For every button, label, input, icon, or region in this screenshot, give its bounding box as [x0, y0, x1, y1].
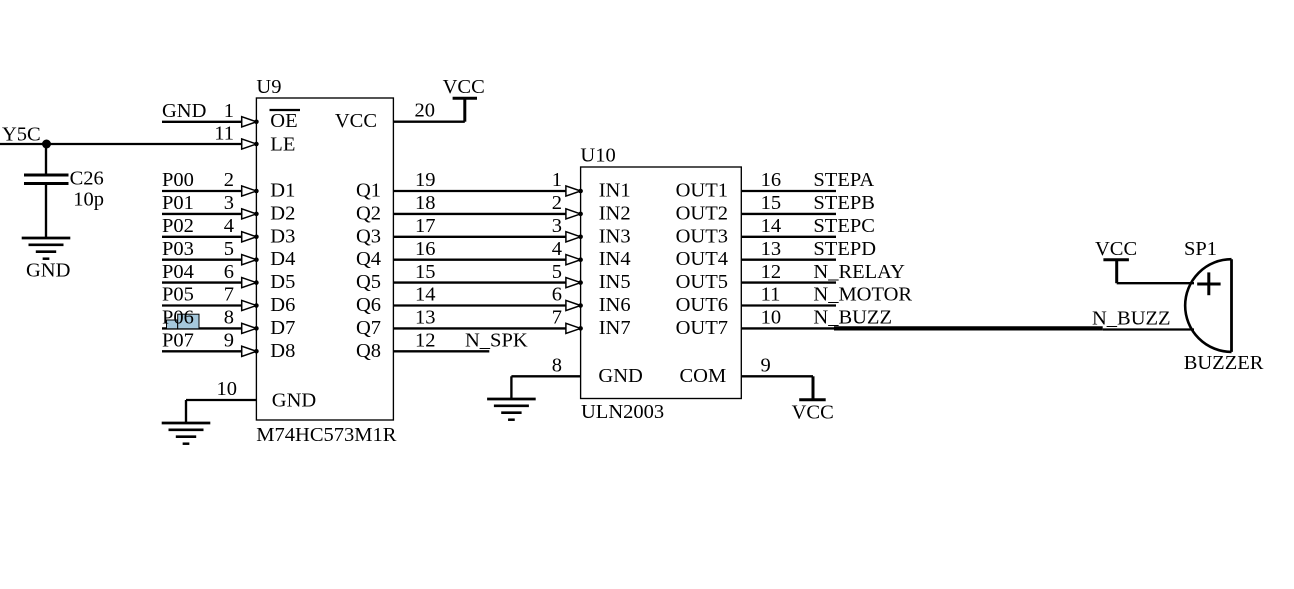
pin 2 input arrow U10 IN2: [566, 209, 583, 219]
svg-text:COM: COM: [679, 365, 726, 387]
svg-text:17: 17: [415, 215, 436, 237]
svg-text:8: 8: [224, 307, 234, 329]
pin number 3: [224, 192, 234, 214]
wire U9 Q2 (pin 18) to U10 IN2 (pin 2): [393, 213, 566, 215]
pin number 10: [217, 378, 238, 400]
pin 5 input arrow U9 D4: [242, 255, 259, 265]
pin name Q6: [356, 294, 381, 316]
label P04: [162, 261, 194, 283]
svg-text:15: 15: [415, 261, 436, 283]
svg-text:2: 2: [552, 192, 562, 214]
wire U9 Q4 (pin 16) to U10 IN4 (pin 4): [393, 259, 566, 261]
label net N_BUZZ: [813, 307, 892, 329]
label P01: [162, 192, 194, 214]
svg-text:GND: GND: [272, 390, 316, 412]
wire U10 OUT3 (pin 14) net STEPC: [741, 236, 836, 238]
svg-text:VCC: VCC: [443, 76, 485, 98]
pin 4 input arrow U9 D3: [242, 232, 259, 242]
svg-text:D8: D8: [270, 340, 295, 362]
wire C26 to ground: [45, 184, 47, 239]
IC U9 reference label: [256, 76, 281, 98]
svg-text:1: 1: [552, 169, 562, 191]
wire U9 Q3 (pin 17) to U10 IN3 (pin 3): [393, 236, 566, 238]
pin number 16: [761, 169, 782, 191]
pin name D3: [270, 225, 295, 247]
pin name D1: [270, 180, 295, 202]
pin number 11: [761, 284, 781, 306]
svg-text:Q8: Q8: [356, 340, 381, 362]
wire U10 OUT7 (pin 10) net N_BUZZ: [741, 327, 836, 329]
wire N_BUZZ thick segment: [834, 326, 1103, 330]
wire U10 OUT4 (pin 13) net STEPD: [741, 259, 836, 261]
svg-text:D5: D5: [270, 271, 295, 293]
pin name Q3: [356, 225, 381, 247]
svg-text:IN7: IN7: [599, 317, 631, 339]
svg-text:Q7: Q7: [356, 317, 381, 339]
buzzer SP1 body: [1185, 259, 1231, 352]
svg-text:7: 7: [552, 307, 562, 329]
pin name D7: [270, 317, 295, 339]
pin name Q5: [356, 271, 381, 293]
svg-text:SP1: SP1: [1184, 238, 1217, 260]
pin name OUT1: [676, 180, 728, 202]
svg-text:Q4: Q4: [356, 248, 381, 270]
label net STEPB: [813, 192, 875, 214]
wire Y5C net to U9 pin 11: [0, 143, 242, 145]
wire U9 Q7 (pin 13) to U10 IN7 (pin 7): [393, 327, 566, 329]
pin number 16: [415, 238, 436, 260]
wire P04 to U9 pin 6: [162, 281, 242, 283]
svg-text:Y5C: Y5C: [2, 124, 41, 146]
svg-text:P02: P02: [162, 215, 194, 237]
pin number 5: [224, 238, 234, 260]
label P02: [162, 215, 194, 237]
svg-text:OE: OE: [270, 110, 297, 132]
pin number 4: [224, 215, 234, 237]
pin number 14: [415, 284, 436, 306]
wire P05 to U9 pin 7: [162, 304, 242, 306]
pin name LE: [270, 134, 295, 156]
svg-text:6: 6: [552, 284, 562, 306]
pin name IN2: [599, 202, 631, 224]
svg-text:P00: P00: [162, 169, 194, 191]
pin number 2: [552, 192, 562, 214]
svg-text:STEPA: STEPA: [813, 169, 874, 191]
svg-text:IN5: IN5: [599, 271, 631, 293]
svg-text:20: 20: [415, 100, 436, 122]
label P05: [162, 284, 194, 306]
svg-text:3: 3: [224, 192, 234, 214]
pin name IN4: [599, 248, 631, 270]
pin number 15: [415, 261, 436, 283]
svg-text:D2: D2: [270, 202, 295, 224]
label net N_BUZZ (at buzzer): [1092, 308, 1171, 330]
pin 3 input arrow U10 IN3: [566, 232, 583, 242]
pin number 3: [552, 215, 562, 237]
svg-text:VCC: VCC: [335, 110, 377, 132]
wire U10 pin 8 to ground: [511, 376, 580, 399]
svg-text:D1: D1: [270, 180, 295, 202]
ground below U10 pin 8: [487, 399, 536, 420]
svg-text:U9: U9: [256, 76, 281, 98]
pin number 12: [415, 330, 436, 352]
pin number 8: [224, 307, 234, 329]
svg-text:4: 4: [552, 238, 562, 260]
pin number 12: [761, 261, 782, 283]
label GND on pin 1 wire: [162, 100, 206, 122]
svg-text:OUT4: OUT4: [676, 248, 728, 270]
svg-text:3: 3: [552, 215, 562, 237]
wire P01 to U9 pin 3: [162, 213, 242, 215]
wire GND to U9 pin 1: [162, 121, 242, 123]
ground below C26: [22, 238, 71, 259]
svg-text:Q1: Q1: [356, 180, 381, 202]
pin name D8: [270, 340, 295, 362]
svg-text:16: 16: [761, 169, 782, 191]
wire U9 pin 20 to VCC: [393, 98, 464, 121]
svg-text:13: 13: [415, 307, 436, 329]
wire P00 to U9 pin 2: [162, 190, 242, 192]
svg-text:6: 6: [224, 261, 234, 283]
pin name IN3: [599, 225, 631, 247]
pin name GND (U9): [272, 390, 316, 412]
pin 1 input arrow U9 OE: [242, 117, 259, 127]
svg-text:VCC: VCC: [1095, 238, 1137, 260]
svg-text:IN4: IN4: [599, 248, 631, 270]
label P00: [162, 169, 194, 191]
svg-text:GND: GND: [598, 365, 642, 387]
svg-text:STEPD: STEPD: [813, 238, 876, 260]
pin 5 input arrow U10 IN5: [566, 278, 583, 288]
svg-text:STEPB: STEPB: [813, 192, 875, 214]
wire U9 pin 10 to ground: [186, 400, 256, 423]
buzzer plus polarity mark: [1197, 272, 1220, 295]
pin name Q4: [356, 248, 381, 270]
svg-text:OUT3: OUT3: [676, 225, 728, 247]
label C26 value 10p: [70, 167, 104, 210]
wire N_BUZZ to buzzer: [1103, 328, 1194, 330]
svg-text:P06: P06: [162, 307, 194, 329]
pin name OUT6: [676, 294, 728, 316]
pin number 1: [552, 169, 562, 191]
pin name OUT2: [676, 202, 728, 224]
wire U9 Q5 (pin 15) to U10 IN5 (pin 5): [393, 281, 566, 283]
pin number 18: [415, 192, 436, 214]
pin name COM: [679, 365, 726, 387]
svg-text:GND: GND: [26, 260, 70, 282]
pin name D2: [270, 202, 295, 224]
pin 6 input arrow U10 IN6: [566, 300, 583, 310]
IC U10 reference label: [580, 144, 615, 166]
pin name OUT3: [676, 225, 728, 247]
highlight on P06 label: [167, 314, 200, 329]
svg-text:OUT2: OUT2: [676, 202, 728, 224]
node Y5C label: [2, 124, 41, 146]
pin number 2: [224, 169, 234, 191]
pin name IN6: [599, 294, 631, 316]
pin number 5: [552, 261, 562, 283]
pin name D4: [270, 248, 295, 270]
wire P07 to U9 pin 9: [162, 350, 242, 352]
wire U10 OUT6 (pin 11) net N_MOTOR: [741, 304, 836, 306]
svg-text:10: 10: [217, 378, 238, 400]
label P03: [162, 238, 194, 260]
svg-text:9: 9: [224, 330, 234, 352]
label net N_RELAY: [813, 261, 905, 283]
pin number 20: [415, 100, 436, 122]
pin name Q8: [356, 340, 381, 362]
svg-text:11: 11: [214, 123, 234, 145]
svg-text:N_BUZZ: N_BUZZ: [1092, 308, 1171, 330]
svg-text:IN3: IN3: [599, 225, 631, 247]
pin number 7: [224, 284, 234, 306]
pin 6 input arrow U9 D5: [242, 278, 259, 288]
svg-text:OUT6: OUT6: [676, 294, 728, 316]
label net STEPC: [813, 215, 875, 237]
pin name Q2: [356, 202, 381, 224]
pin number 6: [224, 261, 234, 283]
label GND net: [26, 260, 70, 282]
pin name GND (U10): [598, 365, 642, 387]
svg-text:OUT5: OUT5: [676, 271, 728, 293]
pin name OE with overline: [270, 110, 301, 132]
svg-text:VCC: VCC: [792, 401, 834, 423]
svg-text:13: 13: [761, 238, 782, 260]
label ULN2003 part value: [581, 401, 664, 423]
label M74HC573M1R part value: [256, 424, 396, 446]
label VCC (top): [443, 76, 485, 98]
power symbol VCC (U9 pin 20): [453, 97, 477, 100]
wire U10 OUT5 (pin 12) net N_RELAY: [741, 281, 836, 283]
pin number 1: [224, 100, 234, 122]
svg-text:2: 2: [224, 169, 234, 191]
svg-text:10: 10: [761, 307, 782, 329]
svg-text:P01: P01: [162, 192, 194, 214]
svg-text:Q6: Q6: [356, 294, 381, 316]
wire U10 OUT1 (pin 16) net STEPA: [741, 190, 836, 192]
svg-text:18: 18: [415, 192, 436, 214]
svg-text:LE: LE: [270, 134, 295, 156]
label P06: [162, 307, 194, 329]
IC U10 body ULN2003: [581, 167, 742, 399]
svg-text:D4: D4: [270, 248, 295, 270]
svg-text:IN2: IN2: [599, 202, 631, 224]
pin number 14: [761, 215, 782, 237]
pin 9 input arrow U9 D8: [242, 346, 259, 356]
pin number 11: [214, 123, 234, 145]
svg-text:12: 12: [415, 330, 436, 352]
svg-text:14: 14: [761, 215, 782, 237]
svg-text:N_BUZZ: N_BUZZ: [813, 307, 892, 329]
pin name D5: [270, 271, 295, 293]
wire Y5C to C26: [45, 144, 47, 175]
svg-text:8: 8: [552, 355, 562, 377]
wire U10 pin 9 COM to VCC: [741, 376, 813, 399]
pin number 13: [415, 307, 436, 329]
svg-text:15: 15: [761, 192, 782, 214]
pin 11 input arrow U9 LE: [242, 139, 259, 149]
pin name IN1: [599, 180, 631, 202]
svg-text:16: 16: [415, 238, 436, 260]
power symbol VCC (buzzer): [1103, 258, 1129, 261]
pin name OUT4: [676, 248, 728, 270]
svg-text:N_MOTOR: N_MOTOR: [813, 284, 912, 306]
label SP1: [1184, 238, 1217, 260]
svg-text:GND: GND: [162, 100, 206, 122]
svg-text:7: 7: [224, 284, 234, 306]
pin number 19: [415, 169, 436, 191]
pin 3 input arrow U9 D2: [242, 209, 259, 219]
pin 7 input arrow U9 D6: [242, 300, 259, 310]
svg-text:9: 9: [761, 355, 771, 377]
svg-text:OUT1: OUT1: [676, 180, 728, 202]
svg-text:Q5: Q5: [356, 271, 381, 293]
svg-text:11: 11: [761, 284, 781, 306]
pin number 4: [552, 238, 562, 260]
wire P03 to U9 pin 5: [162, 259, 242, 261]
label BUZZER: [1184, 352, 1264, 374]
svg-text:D6: D6: [270, 294, 295, 316]
svg-text:14: 14: [415, 284, 436, 306]
svg-text:5: 5: [224, 238, 234, 260]
wire U9 Q6 (pin 14) to U10 IN6 (pin 6): [393, 304, 566, 306]
svg-text:IN1: IN1: [599, 180, 631, 202]
pin name OUT7: [676, 317, 728, 339]
svg-text:Q2: Q2: [356, 202, 381, 224]
pin 2 input arrow U9 D1: [242, 186, 259, 196]
pin number 9: [761, 355, 771, 377]
label net STEPA: [813, 169, 874, 191]
wire U9 Q8 (pin 12) N_SPK stub: [393, 350, 489, 352]
junction Y5C/C26: [42, 140, 51, 149]
pin number 13: [761, 238, 782, 260]
svg-text:Q3: Q3: [356, 225, 381, 247]
pin name OUT5: [676, 271, 728, 293]
svg-text:19: 19: [415, 169, 436, 191]
wire U9 Q1 (pin 19) to U10 IN1 (pin 1): [393, 190, 566, 192]
IC U9 body M74HC573M1R: [256, 98, 393, 420]
svg-text:M74HC573M1R: M74HC573M1R: [256, 424, 396, 446]
wire P02 to U9 pin 4: [162, 236, 242, 238]
capacitor C26: [24, 175, 69, 184]
pin name Q7: [356, 317, 381, 339]
svg-text:IN6: IN6: [599, 294, 631, 316]
label net STEPD: [813, 238, 876, 260]
svg-text:N_RELAY: N_RELAY: [813, 261, 905, 283]
svg-text:D3: D3: [270, 225, 295, 247]
pin number 7: [552, 307, 562, 329]
label VCC (below pin 9): [792, 401, 834, 423]
pin number 15: [761, 192, 782, 214]
svg-text:U10: U10: [580, 144, 615, 166]
label net N_SPK: [465, 330, 528, 352]
pin 7 input arrow U10 IN7: [566, 323, 583, 333]
svg-text:P03: P03: [162, 238, 194, 260]
pin number 9: [224, 330, 234, 352]
svg-text:STEPC: STEPC: [813, 215, 875, 237]
pin name VCC (U9 pin 20): [335, 110, 377, 132]
label P07: [162, 330, 194, 352]
wire U10 OUT2 (pin 15) net STEPB: [741, 213, 836, 215]
pin 8 input arrow U9 D7: [242, 323, 259, 333]
svg-text:C26: C26: [70, 167, 104, 189]
pin number 17: [415, 215, 436, 237]
pin number 6: [552, 284, 562, 306]
pin 4 input arrow U10 IN4: [566, 255, 583, 265]
wire VCC to buzzer +: [1117, 260, 1194, 283]
pin name D6: [270, 294, 295, 316]
pin name IN5: [599, 271, 631, 293]
power symbol VCC (U10 pin 9): [799, 398, 826, 401]
svg-text:12: 12: [761, 261, 782, 283]
pin name Q1: [356, 180, 381, 202]
ground below U9 pin 10: [162, 423, 211, 444]
svg-text:10p: 10p: [73, 189, 104, 211]
svg-text:BUZZER: BUZZER: [1184, 352, 1264, 374]
pin 1 input arrow U10 IN1: [566, 186, 583, 196]
svg-text:5: 5: [552, 261, 562, 283]
label net N_MOTOR: [813, 284, 912, 306]
svg-text:4: 4: [224, 215, 234, 237]
pin number 10: [761, 307, 782, 329]
pin number 8: [552, 355, 562, 377]
label VCC (buzzer): [1095, 238, 1137, 260]
svg-text:D7: D7: [270, 317, 295, 339]
svg-text:1: 1: [224, 100, 234, 122]
svg-text:OUT7: OUT7: [676, 317, 728, 339]
svg-text:ULN2003: ULN2003: [581, 401, 664, 423]
svg-text:P07: P07: [162, 330, 194, 352]
wire P06 to U9 pin 8: [162, 327, 242, 329]
pin name IN7: [599, 317, 631, 339]
svg-text:N_SPK: N_SPK: [465, 330, 528, 352]
svg-text:P05: P05: [162, 284, 194, 306]
svg-text:P04: P04: [162, 261, 194, 283]
